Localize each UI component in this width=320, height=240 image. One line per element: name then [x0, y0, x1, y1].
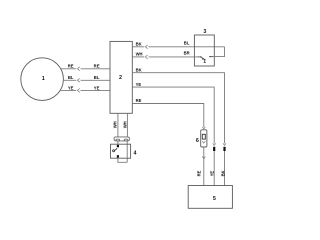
wire BK to box 5	[224, 151, 226, 186]
svg-text:RE: RE	[197, 170, 202, 176]
svg-text:BR: BR	[184, 51, 190, 56]
svg-text:4: 4	[134, 150, 137, 156]
wire WH right (box 2 bottom to connector)	[126, 113, 128, 137]
svg-text:BK: BK	[136, 42, 142, 47]
svg-text:6: 6	[196, 138, 199, 144]
wire RE (circle 1 to box 2)	[60, 68, 76, 70]
wire WH left (box 2 bottom to connector)	[117, 113, 119, 137]
svg-text:YE: YE	[94, 85, 100, 90]
svg-text:WH: WH	[123, 121, 128, 128]
svg-text:RE: RE	[94, 64, 100, 69]
svg-text:BK: BK	[136, 68, 142, 73]
connector chevron BL	[78, 78, 80, 82]
svg-text:1: 1	[42, 76, 45, 82]
wire RE below fuse	[203, 147, 205, 186]
svg-text:BL: BL	[68, 75, 74, 80]
svg-text:5: 5	[213, 196, 216, 202]
connector chevron on RE wire	[202, 156, 205, 158]
connector (2-pin plug)	[114, 137, 129, 141]
wire BK (box 2 to switch 3, becomes BL)	[132, 46, 144, 48]
svg-text:YE: YE	[136, 82, 142, 87]
box 4 (switch)	[111, 144, 131, 158]
svg-text:YE: YE	[68, 85, 74, 90]
svg-text:BL: BL	[94, 75, 100, 80]
wire RE (box 2 right, down to fuse 6)	[132, 104, 204, 128]
switch blade in box 4	[113, 150, 115, 152]
wire WH (box 2 to switch 3, becomes BR)	[132, 56, 144, 58]
wire left (connector to box 4)	[117, 141, 119, 145]
wire YE (box 2 right, down to box 5)	[132, 87, 214, 143]
connector chevron WH	[145, 55, 147, 59]
thermal actuator mark in box 3	[202, 59, 206, 63]
connector chevron on BK wire	[223, 143, 226, 145]
svg-text:BL: BL	[184, 40, 190, 45]
box 3 (thermal switch)	[194, 35, 214, 66]
wire right (connector through box 4)	[126, 141, 128, 162]
switch bottom pin in box 4	[117, 155, 119, 157]
wire BK (box 2 right, down to box 5)	[132, 73, 224, 144]
svg-text:WH: WH	[136, 52, 143, 57]
svg-text:RE: RE	[68, 64, 74, 69]
connector chevron BK	[145, 45, 147, 49]
svg-text:WH: WH	[112, 121, 117, 128]
svg-text:YE: YE	[209, 171, 214, 177]
svg-text:RE: RE	[136, 98, 142, 103]
box 2 (control unit)	[110, 41, 132, 113]
svg-text:3: 3	[203, 29, 206, 35]
wire BR inside box 3	[194, 56, 199, 58]
fuse 6	[202, 127, 205, 129]
connector chevron YE	[78, 89, 80, 93]
wire U loop below box 4	[118, 158, 127, 163]
wire loop right of box 3	[212, 47, 225, 57]
switch blade in box 3	[201, 58, 205, 61]
connector chevron on YE wire	[213, 143, 216, 145]
wire YE to box 5	[213, 151, 215, 186]
wire YE (circle 1 to box 2)	[60, 89, 76, 91]
connector chevron RE	[78, 67, 80, 71]
splice pin on BK wire	[223, 147, 225, 151]
box 5 (relay box)	[188, 186, 232, 209]
svg-text:BK: BK	[221, 170, 226, 176]
component 1 (motor, circle)	[21, 58, 64, 101]
svg-text:2: 2	[119, 75, 122, 81]
switch contacts in box 3	[199, 56, 213, 58]
wire BL (circle 1 to box 2)	[63, 79, 76, 81]
splice pin on YE wire	[213, 147, 215, 151]
switch top pin in box 4	[117, 145, 119, 147]
